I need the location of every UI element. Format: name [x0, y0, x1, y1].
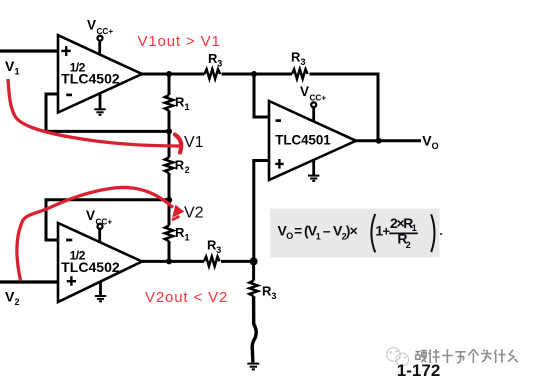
svg-text:V2: V2 [184, 205, 204, 222]
formula box [270, 209, 440, 258]
svg-text:2: 2 [185, 165, 190, 175]
svg-text:3: 3 [216, 245, 221, 255]
annotation red arrow head 1 [175, 135, 181, 153]
svg-text:3: 3 [217, 59, 222, 69]
svg-text:=: = [294, 223, 302, 238]
char 万 [455, 352, 466, 363]
annotation red curve 2 (V2 to node V2) [17, 187, 173, 280]
resistor R3 (d) vertical [249, 281, 257, 297]
resistor R2 [165, 157, 173, 173]
wire R3c to bottom node [221, 260, 254, 263]
wire U2 output [142, 260, 204, 263]
annotation red curve 1 (V1 to node V1) [8, 79, 181, 146]
wire vertical divider chain x=169 [168, 74, 171, 95]
svg-text:R: R [175, 158, 185, 173]
wire U3 plus feed (from bottom node up and right) [254, 161, 269, 262]
svg-text:3: 3 [271, 291, 276, 301]
char 件 [429, 349, 440, 363]
svg-text:×: × [350, 222, 358, 238]
wire V1 input [0, 49, 58, 52]
svg-text:V: V [5, 58, 15, 74]
resistor R1 (a) [165, 95, 173, 111]
svg-text:TLC4502: TLC4502 [61, 260, 120, 275]
formula trailing dot [440, 233, 442, 235]
svg-text:3: 3 [301, 57, 306, 67]
resistor R3 (b) feedback top [292, 69, 308, 79]
node V1 [166, 128, 172, 134]
annotation red arrow head 2 [172, 205, 184, 218]
svg-text:1: 1 [412, 223, 417, 233]
ground bottom [247, 364, 259, 370]
svg-text:TLC4502: TLC4502 [61, 71, 120, 86]
svg-text:1: 1 [185, 102, 190, 112]
svg-text:V: V [300, 84, 309, 99]
wire R2 to V2 node [168, 173, 171, 226]
svg-text:TLC4501: TLC4501 [275, 133, 331, 148]
char 什 [494, 349, 505, 363]
resistor R1 (b) [165, 226, 173, 242]
wire between R3a and R3b [222, 73, 293, 76]
ground U1 [94, 93, 105, 115]
svg-text:2: 2 [15, 297, 20, 307]
resistor R3 (a) top-left [205, 69, 221, 79]
wire R3b to right corner, down to output node [310, 74, 379, 141]
wire bottom node down to R3d [252, 261, 255, 280]
formula Vo = (V1-V2)x(1+2xR1/R2) [278, 215, 417, 250]
svg-text:V: V [86, 208, 95, 223]
op-amp U3 (TLC4501) [269, 101, 356, 180]
wire U2 feedback (minus input to V2 node) [46, 200, 169, 240]
svg-text:2: 2 [406, 240, 411, 250]
svg-text:V: V [87, 18, 96, 33]
svg-text:O: O [432, 141, 439, 151]
svg-text:O: O [286, 231, 293, 241]
svg-text:–: – [323, 222, 331, 238]
wire U3 output [356, 139, 421, 142]
node mid top rail [251, 71, 257, 77]
ground U2 [95, 282, 106, 301]
wire R1b to U2 output line [168, 241, 171, 261]
formula big paren left [371, 214, 375, 252]
char 十 [442, 349, 453, 363]
watermark logo [387, 348, 409, 366]
node U3 output [376, 138, 382, 144]
svg-text:V: V [5, 288, 15, 304]
resistor R3 (c) bottom [204, 257, 220, 267]
node U2 output [166, 258, 172, 264]
svg-text:CC+: CC+ [310, 94, 327, 103]
op-amp U2 (1/2 TLC4502) [58, 223, 142, 302]
wire squiggle R3d to ground [252, 296, 256, 362]
svg-text:1: 1 [185, 233, 190, 243]
wire U1 output to top rail [142, 73, 205, 76]
formula fraction bar [389, 232, 418, 234]
power Vcc+ U2 [86, 208, 112, 243]
svg-text:1: 1 [15, 67, 20, 77]
svg-text:V1out > V1: V1out > V1 [138, 33, 221, 50]
svg-text:R: R [291, 50, 301, 65]
node V2 [166, 197, 172, 203]
node bottom junction [250, 257, 258, 265]
ground U3 [308, 160, 319, 181]
formula big paren right [431, 214, 434, 252]
char 个 [468, 349, 478, 363]
op-amp U1 (1/2 TLC4502) [58, 35, 142, 112]
wire U3 minus feed (from mid rail node down and right) [254, 74, 269, 117]
watermark text 硬件十万个为什么 (drawn strokes) [416, 349, 518, 363]
svg-text:R: R [175, 225, 185, 240]
wire U1 feedback (minus input to V1 node) [46, 94, 169, 131]
node U1 output [166, 71, 172, 77]
power Vcc+ U3 [300, 84, 326, 122]
svg-text:R: R [175, 95, 185, 110]
svg-text:V2out < V2: V2out < V2 [145, 289, 228, 306]
char 么 [508, 350, 518, 362]
wire V2 input [0, 280, 58, 283]
svg-text:V1: V1 [184, 134, 204, 151]
svg-text:1: 1 [316, 231, 321, 241]
char 硬 [416, 350, 427, 362]
char 为 [481, 350, 491, 362]
svg-text:1-172: 1-172 [397, 361, 440, 380]
wire R1a to V1 node [168, 111, 171, 158]
power Vcc+ U1 [87, 18, 113, 55]
